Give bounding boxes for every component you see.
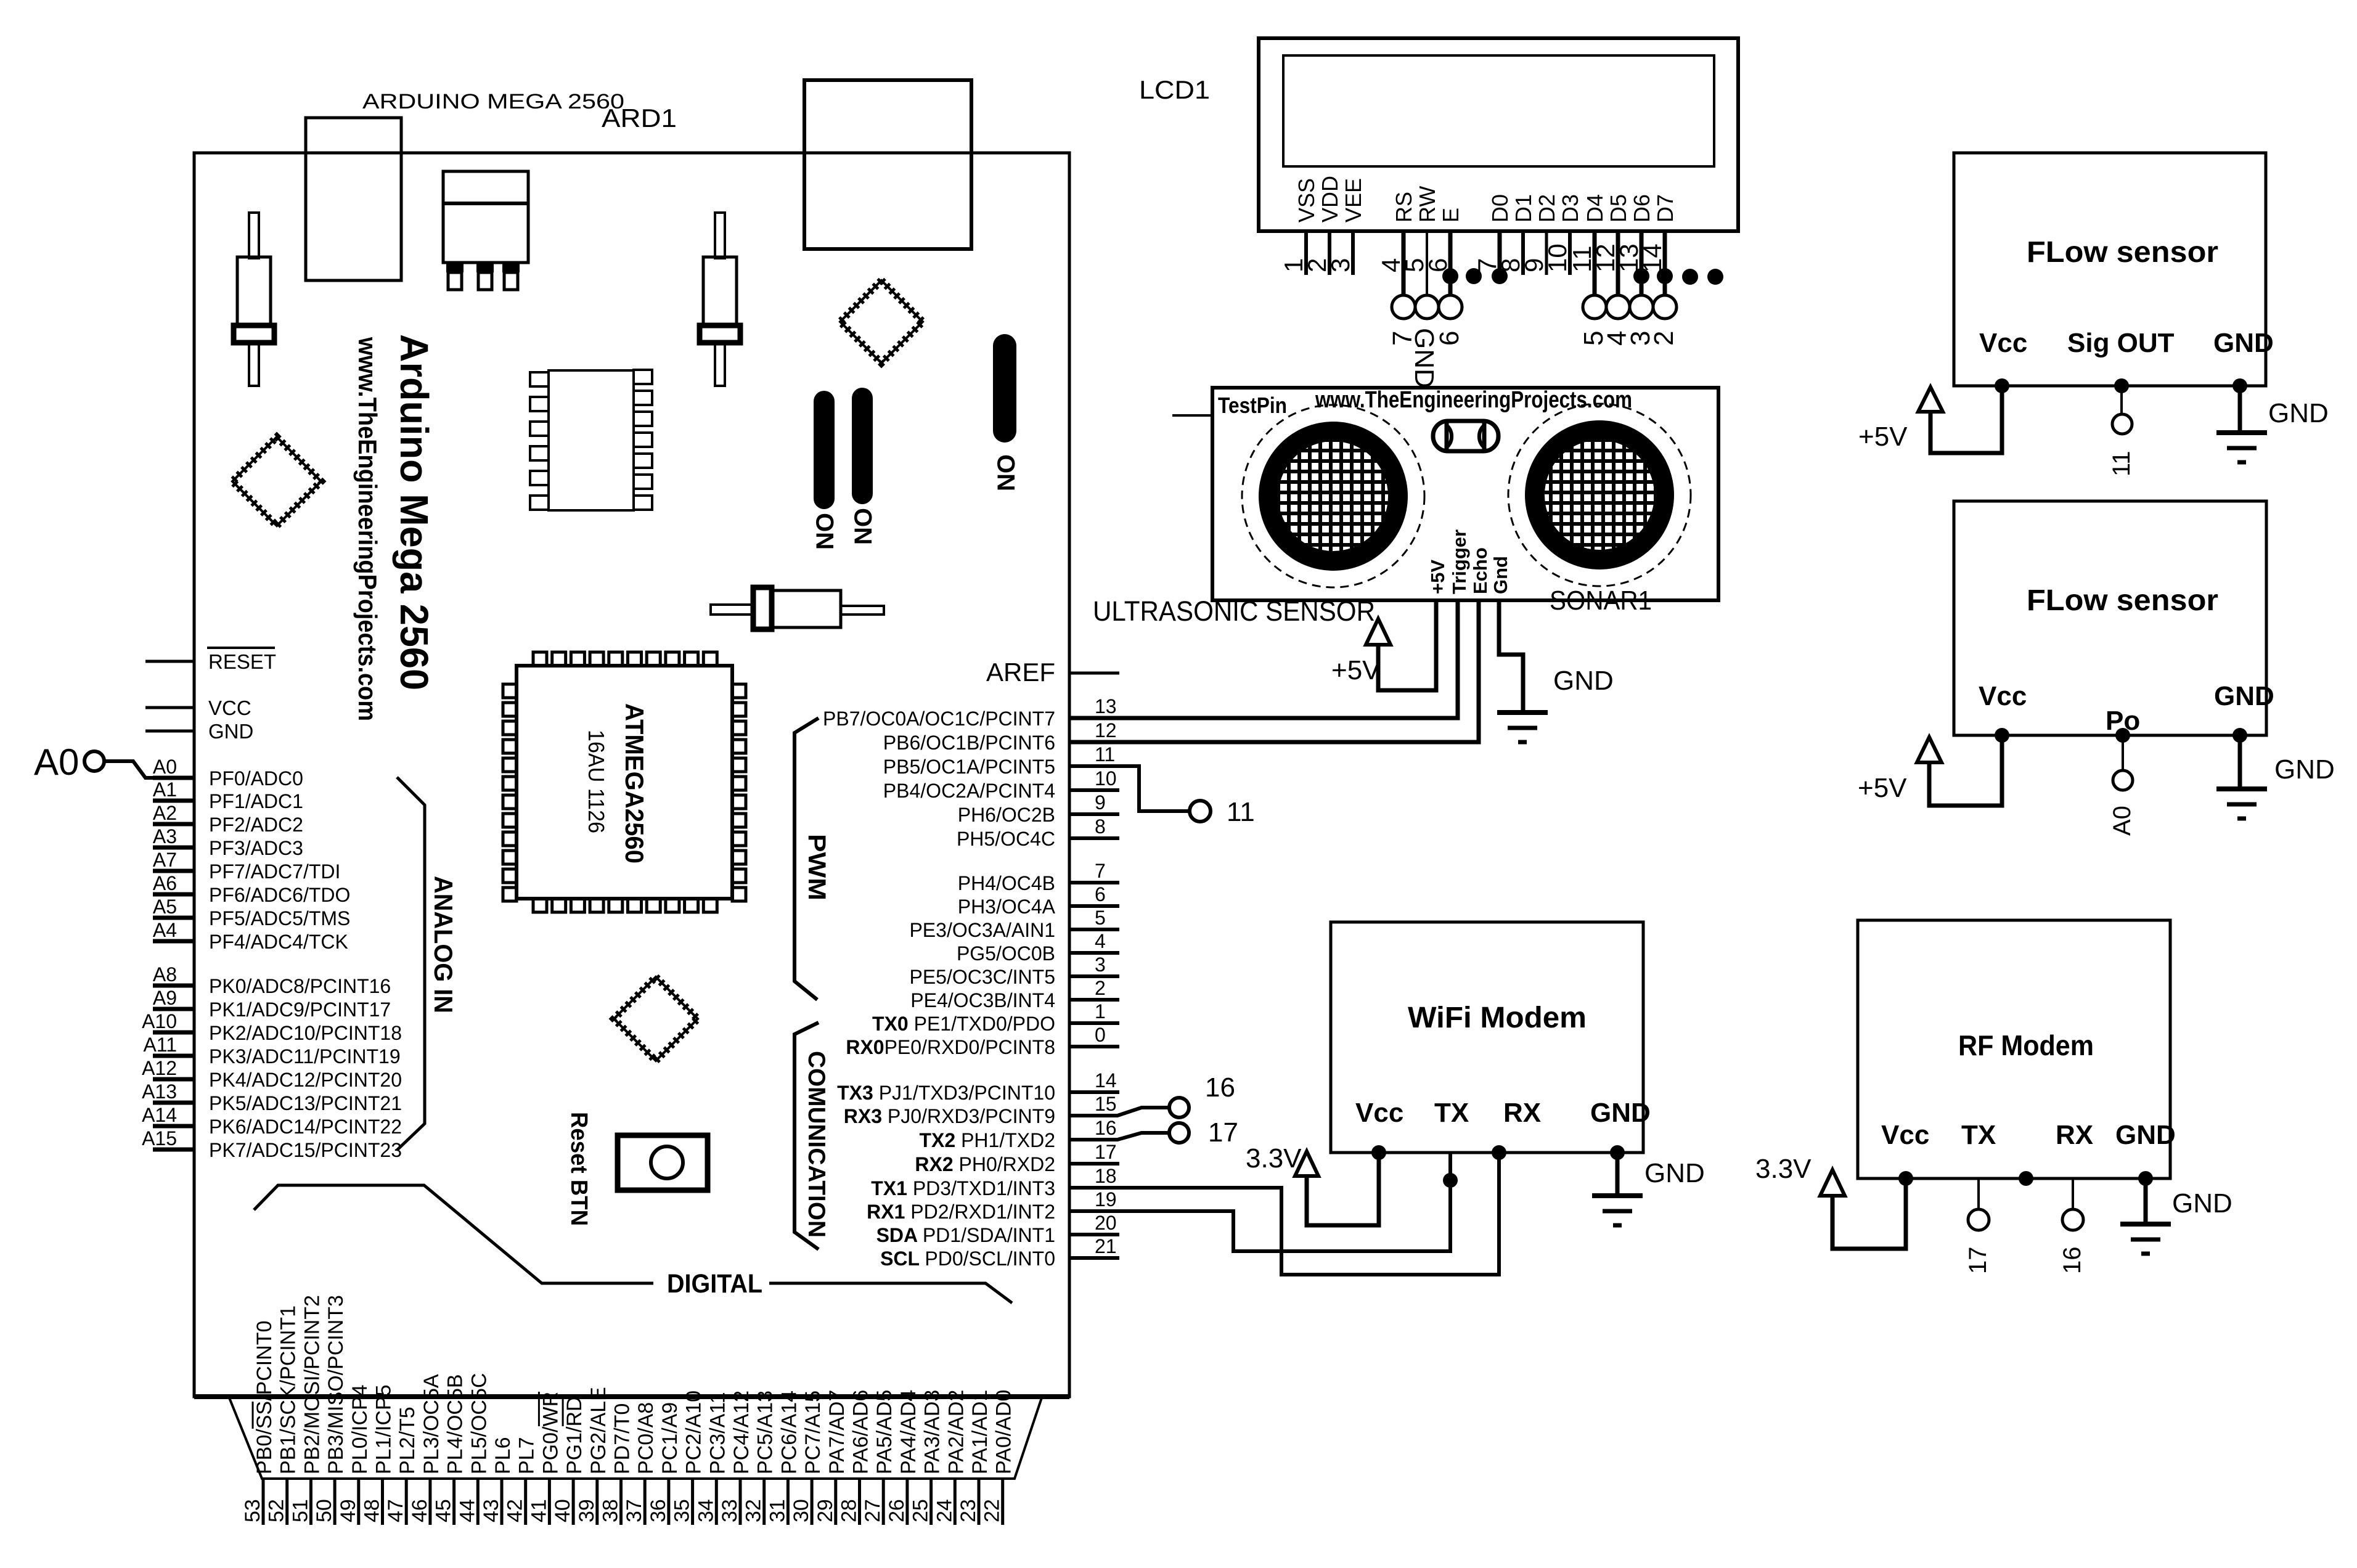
svg-text:PL3/OC5A: PL3/OC5A [420,1374,443,1474]
svg-text:PA0/AD0: PA0/AD0 [992,1390,1016,1474]
svg-text:Sig OUT: Sig OUT [2067,328,2175,358]
svg-text:22: 22 [981,1499,1004,1522]
svg-text:PH6/OC2B: PH6/OC2B [958,804,1055,826]
svg-text:A15: A15 [142,1127,177,1149]
svg-text:PD7/T0: PD7/T0 [611,1403,634,1474]
svg-text:20: 20 [1095,1212,1117,1234]
svg-text:WiFi Modem: WiFi Modem [1408,1002,1587,1034]
svg-text:NO: NO [812,513,839,550]
svg-text:TX3 PJ1/TXD3/PCINT10: TX3 PJ1/TXD3/PCINT10 [837,1082,1055,1104]
svg-text:23: 23 [957,1499,980,1522]
svg-text:PF7/ADC7/TDI: PF7/ADC7/TDI [209,860,340,883]
svg-text:PK2/ADC10/PCINT18: PK2/ADC10/PCINT18 [209,1022,402,1044]
svg-text:PK5/ADC13/PCINT21: PK5/ADC13/PCINT21 [209,1092,402,1114]
svg-text:TX: TX [1961,1120,1996,1150]
svg-text:7: 7 [1095,860,1106,882]
svg-text:PF3/ADC3: PF3/ADC3 [209,837,303,859]
svg-text:PE3/OC3A/AIN1: PE3/OC3A/AIN1 [909,919,1055,941]
svg-text:49: 49 [337,1499,360,1522]
svg-text:48: 48 [361,1499,384,1522]
svg-text:A11: A11 [143,1034,177,1056]
svg-text:PC6/A14: PC6/A14 [777,1390,801,1474]
svg-text:6: 6 [1434,331,1464,346]
svg-text:PB5/OC1A/PCINT5: PB5/OC1A/PCINT5 [883,756,1055,778]
svg-text:PC0/A8: PC0/A8 [634,1402,658,1474]
svg-text:33: 33 [718,1499,741,1522]
svg-text:6: 6 [1095,883,1106,905]
svg-text:PK4/ADC12/PCINT20: PK4/ADC12/PCINT20 [209,1069,402,1091]
svg-text:17: 17 [1964,1247,1991,1275]
svg-text:30: 30 [790,1499,813,1522]
svg-text:50: 50 [312,1499,336,1522]
svg-text:A2: A2 [153,802,177,824]
svg-text:PC4/A12: PC4/A12 [730,1390,753,1474]
svg-text:PA3/AD3: PA3/AD3 [921,1390,944,1474]
svg-text:47: 47 [384,1499,407,1522]
svg-text:27: 27 [861,1499,884,1522]
svg-text:VEE: VEE [1341,178,1366,223]
svg-text:D3: D3 [1558,194,1583,223]
svg-text:D4: D4 [1582,194,1607,223]
svg-text:43: 43 [480,1499,503,1522]
svg-text:53: 53 [241,1499,264,1522]
svg-text:VSS: VSS [1294,178,1319,223]
svg-text:26: 26 [885,1499,909,1522]
svg-text:A1: A1 [153,778,177,801]
svg-text:E: E [1438,208,1463,223]
svg-text:RW: RW [1415,186,1440,223]
svg-text:RX2 PH0/RXD2: RX2 PH0/RXD2 [915,1153,1055,1175]
svg-text:46: 46 [408,1499,431,1522]
svg-text:RX0PE0/RXD0/PCINT8: RX0PE0/RXD0/PCINT8 [846,1036,1055,1058]
svg-text:FLow sensor: FLow sensor [2027,236,2218,269]
svg-text:34: 34 [694,1499,717,1522]
svg-text:PA6/AD6: PA6/AD6 [849,1390,873,1474]
svg-text:PG0/WR: PG0/WR [539,1392,562,1474]
svg-text:PE4/OC3B/INT4: PE4/OC3B/INT4 [910,989,1055,1011]
svg-text:TX1 PD3/TXD1/INT3: TX1 PD3/TXD1/INT3 [871,1177,1055,1199]
svg-text:PWM: PWM [803,834,830,900]
svg-text:ARD1: ARD1 [602,104,677,133]
svg-text:5: 5 [1095,907,1106,929]
svg-text:Gnd: Gnd [1490,556,1511,594]
svg-text:PB4/OC2A/PCINT4: PB4/OC2A/PCINT4 [883,780,1055,802]
svg-text:ARDUINO MEGA 2560: ARDUINO MEGA 2560 [362,90,624,113]
svg-text:31: 31 [766,1499,789,1522]
svg-text:PK7/ADC15/PCINT23: PK7/ADC15/PCINT23 [209,1139,402,1161]
svg-text:PH4/OC4B: PH4/OC4B [958,872,1055,894]
svg-text:2: 2 [1649,331,1679,346]
svg-text:28: 28 [838,1499,861,1522]
svg-text:21: 21 [1095,1235,1117,1257]
svg-text:13: 13 [1095,695,1117,717]
svg-text:GND: GND [1644,1158,1705,1188]
svg-text:PC5/A13: PC5/A13 [754,1390,777,1474]
svg-text:+5V: +5V [1858,422,1908,452]
svg-text:PK6/ADC14/PCINT22: PK6/ADC14/PCINT22 [209,1116,402,1138]
svg-text:A4: A4 [153,919,177,941]
svg-text:PL0/ICP4: PL0/ICP4 [348,1384,372,1474]
svg-text:ATMEGA2560: ATMEGA2560 [620,703,649,864]
svg-text:PL2/T5: PL2/T5 [396,1407,419,1474]
svg-text:D2: D2 [1534,194,1559,223]
svg-text:9: 9 [1095,791,1106,814]
svg-text:45: 45 [432,1499,455,1522]
svg-text:TestPin: TestPin [1218,393,1287,418]
svg-text:16AU 1126: 16AU 1126 [584,730,609,833]
svg-text:25: 25 [909,1499,933,1522]
svg-text:PL5/OC5C: PL5/OC5C [467,1373,491,1474]
svg-text:VDD: VDD [1317,176,1342,223]
svg-text:PK1/ADC9/PCINT17: PK1/ADC9/PCINT17 [209,998,391,1021]
svg-text:NO: NO [993,454,1020,491]
svg-text:2: 2 [1095,977,1106,999]
svg-text:16: 16 [1095,1117,1117,1139]
svg-text:14: 14 [1095,1069,1117,1092]
svg-text:A8: A8 [153,963,177,986]
svg-text:D6: D6 [1629,194,1654,223]
svg-text:PF0/ADC0: PF0/ADC0 [209,767,303,790]
svg-text:GND: GND [2274,754,2335,785]
svg-text:17: 17 [1095,1141,1117,1163]
svg-text:35: 35 [671,1499,694,1522]
svg-text:PH5/OC4C: PH5/OC4C [957,828,1055,850]
svg-text:LCD1: LCD1 [1139,75,1210,104]
svg-text:17: 17 [1208,1117,1238,1148]
svg-text:18: 18 [1095,1165,1117,1187]
svg-text:A10: A10 [142,1010,177,1032]
svg-text:42: 42 [504,1499,527,1522]
svg-text:PB6/OC1B/PCINT6: PB6/OC1B/PCINT6 [883,732,1055,754]
svg-text:D5: D5 [1606,194,1631,223]
svg-text:51: 51 [288,1499,312,1522]
svg-text:Echo: Echo [1469,547,1491,594]
svg-text:SONAR1: SONAR1 [1550,586,1652,616]
svg-text:RX3 PJ0/RXD3/PCINT9: RX3 PJ0/RXD3/PCINT9 [844,1105,1055,1127]
svg-text:PC3/A11: PC3/A11 [706,1392,729,1474]
svg-text:GND: GND [2172,1188,2232,1219]
svg-text:Vcc: Vcc [1881,1120,1929,1150]
svg-text:RF Modem: RF Modem [1958,1029,2094,1061]
svg-text:SDA PD1/SDA/INT1: SDA PD1/SDA/INT1 [876,1224,1055,1246]
svg-text:PG2/ALE: PG2/ALE [587,1387,610,1474]
svg-text:16: 16 [1205,1072,1235,1103]
svg-text:Vcc: Vcc [1355,1098,1403,1128]
svg-text:D1: D1 [1511,194,1536,223]
svg-text:19: 19 [1095,1188,1117,1211]
svg-text:44: 44 [455,1499,479,1522]
svg-text:PC2/A10: PC2/A10 [682,1390,706,1474]
svg-text:PC1/A9: PC1/A9 [658,1402,682,1474]
svg-text:PC7/A15: PC7/A15 [801,1390,825,1474]
svg-text:RS: RS [1391,192,1416,223]
svg-text:PF5/ADC5/TMS: PF5/ADC5/TMS [209,907,350,929]
svg-text:PA2/AD2: PA2/AD2 [944,1390,968,1474]
svg-text:41: 41 [527,1499,550,1522]
svg-text:A6: A6 [153,872,177,894]
svg-text:Vcc: Vcc [1979,681,2027,711]
svg-text:DIGITAL: DIGITAL [667,1269,762,1299]
svg-text:A12: A12 [142,1057,177,1079]
svg-text:PL4/OC5B: PL4/OC5B [444,1374,467,1474]
svg-text:TX0 PE1/TXD0/PDO: TX0 PE1/TXD0/PDO [872,1013,1055,1035]
svg-text:GND: GND [2268,398,2329,428]
svg-text:TX: TX [1434,1098,1469,1128]
svg-text:11: 11 [1227,797,1255,827]
svg-text:PA1/AD1: PA1/AD1 [968,1390,992,1474]
svg-text:www.TheEngineeringProjects.com: www.TheEngineeringProjects.com [353,337,382,721]
svg-text:RESET: RESET [208,650,276,673]
svg-text:15: 15 [1095,1093,1117,1115]
svg-text:A7: A7 [153,849,177,871]
svg-text:PA4/AD4: PA4/AD4 [897,1390,920,1474]
svg-text:PB3/MISO/PCINT3: PB3/MISO/PCINT3 [324,1295,348,1474]
svg-text:14: 14 [1638,243,1667,272]
svg-text:PB7/OC0A/OC1C/PCINT7: PB7/OC0A/OC1C/PCINT7 [823,708,1055,730]
svg-text:A9: A9 [153,987,177,1009]
svg-text:D0: D0 [1487,194,1513,223]
svg-text:D7: D7 [1652,194,1678,223]
svg-text:+5V: +5V [1331,655,1381,685]
svg-text:8: 8 [1095,815,1106,838]
svg-text:RX: RX [2056,1120,2093,1150]
svg-text:PF6/ADC6/TDO: PF6/ADC6/TDO [209,884,350,906]
svg-text:RX: RX [1503,1098,1541,1128]
svg-text:11: 11 [2108,451,2135,476]
svg-text:A0: A0 [153,756,177,778]
svg-text:A3: A3 [153,825,177,847]
svg-text:PF1/ADC1: PF1/ADC1 [209,790,303,812]
svg-text:52: 52 [265,1499,288,1522]
svg-text:Reset BTN: Reset BTN [566,1112,592,1226]
svg-text:PB0/SS/PCINT0: PB0/SS/PCINT0 [253,1321,276,1474]
svg-text:COMUNICATION: COMUNICATION [803,1051,830,1238]
svg-text:39: 39 [575,1499,598,1522]
svg-text:29: 29 [814,1499,837,1522]
svg-text:32: 32 [742,1499,766,1522]
svg-text:FLow sensor: FLow sensor [2027,584,2218,617]
svg-text:TX2 PH1/TXD2: TX2 PH1/TXD2 [919,1129,1055,1151]
svg-text:VCC: VCC [208,696,251,719]
svg-text:38: 38 [599,1499,623,1522]
svg-text:GND: GND [1553,666,1614,696]
svg-text:12: 12 [1095,719,1117,741]
svg-text:A0: A0 [2109,806,2136,836]
svg-text:PG1/RD: PG1/RD [563,1396,586,1474]
svg-text:PG5/OC0B: PG5/OC0B [957,942,1055,965]
svg-text:AREF: AREF [986,658,1055,687]
svg-text:40: 40 [551,1499,574,1522]
svg-text:PH3/OC4A: PH3/OC4A [958,896,1056,918]
svg-text:PL1/ICP5: PL1/ICP5 [372,1384,396,1474]
svg-text:ULTRASONIC SENSOR: ULTRASONIC SENSOR [1093,595,1375,627]
svg-text:SCL PD0/SCL/INT0: SCL PD0/SCL/INT0 [880,1247,1055,1270]
svg-text:NO: NO [850,508,877,545]
svg-text:37: 37 [623,1499,646,1522]
svg-text:PK0/ADC8/PCINT16: PK0/ADC8/PCINT16 [209,975,391,997]
svg-text:36: 36 [647,1499,670,1522]
svg-text:3.3V: 3.3V [1246,1143,1302,1174]
svg-text:3: 3 [1326,258,1355,272]
svg-text:PE5/OC3C/INT5: PE5/OC3C/INT5 [909,966,1055,988]
svg-text:+5V: +5V [1427,560,1448,594]
svg-text:PF2/ADC2: PF2/ADC2 [209,814,303,836]
svg-text:A5: A5 [153,896,177,918]
svg-text:10: 10 [1095,767,1117,790]
svg-text:GND: GND [2213,328,2274,358]
svg-text:PL7: PL7 [515,1437,539,1475]
svg-text:GND: GND [2214,681,2274,711]
svg-text:ANALOG IN: ANALOG IN [429,876,458,1013]
svg-text:GND: GND [208,720,253,743]
svg-text:A13: A13 [142,1080,177,1103]
svg-text:0: 0 [1095,1024,1106,1046]
svg-text:Arduino Mega 2560: Arduino Mega 2560 [392,334,436,690]
svg-text:GND: GND [2115,1120,2176,1150]
svg-text:+5V: +5V [1858,773,1907,803]
svg-text:24: 24 [933,1499,956,1522]
svg-text:GND: GND [1590,1098,1651,1128]
svg-text:PB1/SCK/PCINT1: PB1/SCK/PCINT1 [277,1305,300,1474]
svg-text:A14: A14 [142,1104,177,1126]
svg-text:11: 11 [1095,743,1115,766]
svg-text:RX1 PD2/RXD1/INT2: RX1 PD2/RXD1/INT2 [867,1201,1055,1223]
svg-text:3.3V: 3.3V [1755,1154,1812,1184]
svg-text:16: 16 [2059,1247,2086,1275]
svg-text:PF4/ADC4/TCK: PF4/ADC4/TCK [209,931,348,953]
svg-text:PA7/AD7: PA7/AD7 [825,1390,849,1474]
svg-text:PB2/MOSI/PCINT2: PB2/MOSI/PCINT2 [300,1295,324,1474]
svg-text:4: 4 [1095,930,1106,952]
svg-text:PL6: PL6 [491,1437,515,1475]
svg-text:Trigger: Trigger [1448,529,1470,594]
svg-text:1: 1 [1095,1000,1106,1023]
svg-text:3: 3 [1095,953,1106,976]
svg-text:PA5/AD5: PA5/AD5 [873,1390,896,1474]
svg-text:PK3/ADC11/PCINT19: PK3/ADC11/PCINT19 [209,1045,401,1068]
svg-text:A0: A0 [34,741,79,783]
svg-text:Vcc: Vcc [1979,328,2027,358]
